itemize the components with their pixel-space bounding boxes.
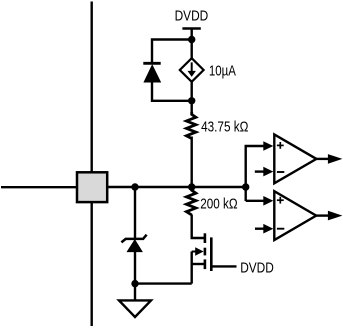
svg-text:43.75 kΩ: 43.75 kΩ	[201, 119, 248, 135]
node: junction dot on bus (zener branch)	[131, 183, 138, 190]
wire: current source bottom stub	[190, 81, 192, 115]
diode D1 cathode bar	[143, 62, 160, 65]
op-amp U2 plus sign	[277, 199, 284, 201]
wire: Q1 gate to DVDD	[211, 265, 236, 267]
node: junction dot top (DVDD node)	[188, 36, 195, 43]
power rail bar DVDD	[182, 27, 200, 30]
zener diode Z1 cathode bar with bent tails	[121, 235, 146, 243]
transistor Q1 source stub	[192, 263, 205, 265]
wire: Q1 source/body down to bottom rail	[190, 252, 192, 284]
wire: zener bottom to ground node	[134, 251, 136, 284]
svg-text:10µA: 10µA	[209, 63, 236, 79]
transistor Q1 body arrow	[192, 251, 197, 253]
transistor Q1 body contact bar	[204, 248, 207, 256]
wire: U1 − input stub with arrowhead	[255, 170, 265, 172]
wire: to U2 + input with arrowhead	[246, 200, 265, 202]
svg-text:200 kΩ: 200 kΩ	[200, 197, 237, 213]
ground symbol (open triangle)	[119, 300, 151, 317]
zener diode Z1 triangle (pointing up)	[127, 240, 142, 252]
wire: bus down to zener	[134, 187, 136, 239]
node: junction dot ground node	[131, 280, 138, 287]
op-amp U2 minus sign	[277, 228, 284, 230]
current source I1 diamond	[180, 58, 204, 82]
node: junction dot on bus (resistors)	[188, 183, 195, 190]
wire: ground stub	[134, 284, 136, 301]
wire: left horizontal into pin box	[1, 186, 78, 188]
diode D1 triangle (anode, pointing up)	[144, 65, 160, 82]
wire: to U1 + input with arrowhead	[245, 145, 265, 147]
op-amp U1 plus sign	[277, 144, 284, 146]
wire: diode bottom to lower node	[152, 81, 192, 101]
op-amp U1 triangle	[274, 135, 316, 184]
pin box (gray square)	[77, 172, 107, 202]
resistor R2 200 kΩ zigzag	[186, 188, 196, 215]
node: junction dot comparator feed	[242, 183, 249, 190]
transistor Q1 drain contact bar	[204, 233, 207, 243]
transistor Q1 source contact bar	[204, 259, 207, 269]
wire: horizontal bus from pin box to comparator node	[106, 186, 246, 188]
wire: resistor R2 bottom lead to MOSFET drain	[192, 215, 205, 239]
wire: U2 − input stub with arrowhead	[255, 227, 265, 229]
op-amp U2 triangle	[274, 191, 316, 240]
wire: bottom rail (ground node to Q1 source)	[135, 282, 192, 284]
wire: U2 output with arrowhead	[316, 214, 330, 216]
svg-text:DVDD: DVDD	[175, 9, 209, 25]
node: junction dot above resistor	[188, 97, 195, 104]
wire: main vertical line through pin box	[90, 2, 92, 327]
wire: DVDD stub down to node	[190, 29, 192, 60]
wire: top loop left branch (node to diode)	[152, 40, 192, 65]
wire: comparator feed vertical	[244, 146, 246, 201]
wire: resistor R1 bottom lead to bus	[190, 137, 192, 188]
current source I1 arrow (downward)	[191, 62, 193, 72]
wire: U1 output with arrowhead	[316, 158, 330, 160]
resistor R1 43.75 kΩ zigzag	[186, 112, 196, 139]
svg-text:DVDD: DVDD	[240, 260, 274, 276]
op-amp U1 minus sign	[277, 171, 284, 173]
transistor Q1 gate electrode	[210, 237, 213, 271]
